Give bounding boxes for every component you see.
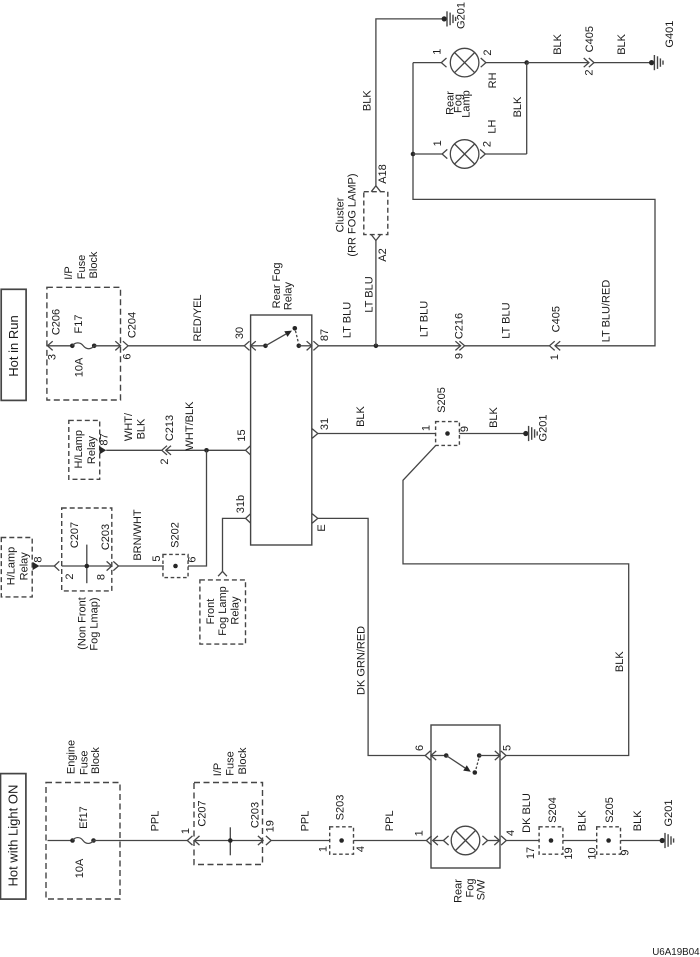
Front Fog Lamp Relay box [200,580,246,644]
label PPL b [300,811,312,832]
switch pin 5 chevrons [495,751,506,760]
ground G201 bottom [660,833,674,848]
svg-text:C207: C207 [69,522,81,548]
svg-text:A18: A18 [377,164,389,184]
svg-text:C405: C405 [551,306,563,332]
svg-text:5: 5 [151,555,163,561]
diagram code U6A19B04 [652,947,700,957]
wire BLK to C405-2 [527,62,589,64]
label 2 c207 [64,573,76,579]
svg-text:1: 1 [180,828,192,834]
wire fuse to C204 [94,345,120,347]
relay pin 31b chevron [246,514,251,523]
label BLK top [362,90,374,111]
label BRN/WHT [132,509,144,561]
label 17 [525,847,537,859]
wire BLK to G401 [594,62,652,64]
fuse Ef17 10A [70,838,96,844]
C203 exit chevron bottom [266,836,271,845]
wire BLK junction down to LH [526,63,528,154]
svg-text:C207: C207 [197,800,209,826]
label C405 top [584,26,596,52]
wire LT BLU C216 to C405 [465,345,550,347]
svg-text:Block: Block [88,251,100,278]
svg-text:LT BLU: LT BLU [501,302,513,338]
label WHT/ BLK [123,412,148,441]
label H/Lamp Relay 2 [5,547,30,586]
label 5 sw [501,745,513,751]
wire DK GRN/RED [318,518,425,755]
wire RH pin2 to junction [486,62,527,64]
wire LH pin1 to junction [413,153,442,155]
triangle link hlamp top [100,446,107,454]
label LT BLU b [364,276,376,312]
label 31b [235,495,247,513]
label C207 nff [69,522,81,548]
connector C213 [162,446,171,455]
svg-text:8: 8 [33,556,45,562]
svg-text:1: 1 [414,830,426,836]
svg-text:2: 2 [482,141,494,147]
svg-text:F17: F17 [73,315,85,334]
svg-text:H/Lamp: H/Lamp [73,430,85,469]
label G201 top [456,2,468,29]
I/P fuse block box bottom [194,783,263,865]
label BLK s205 [488,406,500,427]
node LH junction [411,152,416,157]
switch pin 4 chevrons [494,836,506,845]
Hot in Run header box [1,289,26,400]
svg-text:Fog Lamp: Fog Lamp [217,586,229,636]
splice S203 [330,827,354,854]
label 31 [319,418,331,430]
wire contact to pin5 [479,755,500,757]
svg-text:Fuse: Fuse [224,751,236,775]
wire BRN/WHT [119,565,164,567]
node junction row B [204,448,209,453]
ground G201 row C [523,426,537,441]
svg-text:Front: Front [205,599,217,625]
label 4 sw [505,830,517,836]
label BLK rh1 [552,33,564,54]
H/Lamp Relay box 2 [1,538,32,597]
wire pin6 to contact [431,755,446,757]
svg-text:Hot in Run: Hot in Run [6,315,21,376]
label S205 c [436,387,448,413]
svg-text:C216: C216 [454,313,466,339]
svg-text:LT BLU: LT BLU [364,276,376,312]
label Ef17 [78,806,90,829]
svg-text:2: 2 [64,573,76,579]
wire start to fuse Ef17 [48,840,73,842]
connector C216 [455,341,464,350]
wire PPL to S203 [271,840,330,842]
svg-text:Fuse: Fuse [79,750,91,774]
label 9 [454,353,466,359]
splice S204 [539,827,563,854]
svg-text:1: 1 [432,140,444,146]
label 4 s203 [355,846,367,852]
label LT BLU/RED [600,280,612,343]
svg-text:4: 4 [355,846,367,852]
label S202 [170,522,182,548]
connector C405 [550,341,561,350]
svg-text:Relay: Relay [86,435,98,464]
wire BLK S204 to S205 [563,840,597,842]
label S205 b [604,797,616,823]
relay switch NO contact dot [293,326,298,331]
label BLK s204 [577,810,589,831]
wire 31b [223,518,246,571]
svg-text:I/P: I/P [63,266,75,279]
LH lamp pin1 chevron [442,149,447,158]
switch lamp lead left [443,836,448,845]
svg-text:G201: G201 [663,800,675,827]
wire C206 to fuse [48,345,73,347]
label (Non Front Fog Lmap) [77,597,101,650]
relay pin 15 chevron [246,446,251,455]
LH lamp pin2 chevron [480,149,485,158]
label H/Lamp Relay top [73,430,98,469]
wire S202 up to junction [188,450,207,566]
rear fog lamp RH [450,48,479,77]
svg-text:9: 9 [620,849,632,855]
svg-text:2: 2 [482,50,494,56]
splice S202 [163,554,188,577]
label 15 [236,429,248,441]
svg-text:H/Lamp: H/Lamp [5,547,17,586]
ground G201 top [442,11,456,26]
switch common contact [444,753,449,758]
I/P fuse block box (top) [47,287,121,400]
label S203 [335,795,347,821]
label 1 s203 [318,846,330,852]
wire WHT/BLK to pin15 [166,449,246,451]
splice S205 row C [436,422,460,446]
label DK BLU [521,793,533,833]
fuse F17 10A [70,343,96,349]
svg-text:G201: G201 [538,415,550,442]
svg-text:87: 87 [319,329,331,341]
svg-text:S203: S203 [335,795,347,821]
label C213 [164,415,176,441]
label A18 [377,164,389,184]
relay pin 30 chevrons [244,341,256,350]
svg-text:17: 17 [525,847,537,859]
relay pin87 contact dot [297,344,302,349]
cluster box [364,192,388,235]
svg-text:E: E [316,524,328,531]
wire lamp to pin4 [488,840,500,842]
label 87 hlamp [99,433,111,445]
svg-text:U6A19B04: U6A19B04 [652,947,700,957]
svg-text:Ef17: Ef17 [78,806,90,829]
label 1 LH [432,140,444,146]
label 1 RH [431,49,443,55]
switch pin 1 chevrons [426,836,438,845]
svg-text:6: 6 [122,353,134,359]
svg-text:G201: G201 [456,2,468,29]
svg-text:BLK: BLK [362,90,374,111]
label LH [487,120,499,134]
C203 exit arrow [107,561,112,570]
label DK GRN/RED [356,626,368,695]
svg-text:C204: C204 [127,312,139,338]
svg-text:BLK: BLK [512,96,524,117]
svg-text:BRN/WHT: BRN/WHT [132,509,144,561]
svg-text:(Non Front: (Non Front [77,597,89,650]
svg-text:Relay: Relay [283,282,295,311]
svg-text:4: 4 [505,830,517,836]
label 19 s204 [563,847,575,859]
svg-text:LT BLU/RED: LT BLU/RED [600,280,612,343]
label Engine Fuse Block [66,740,102,775]
relay switch arm [266,331,293,346]
label 2 C213 [159,458,171,464]
svg-text:87: 87 [99,433,111,445]
svg-text:S204: S204 [547,797,559,823]
label F17 [73,315,85,334]
svg-text:RH: RH [487,72,499,88]
label BLK s205b [632,810,644,831]
label C203 nff [100,524,112,550]
label LT BLU d [501,302,513,338]
label G401 [664,21,676,48]
label BLK 31 [355,405,367,426]
svg-text:S202: S202 [170,522,182,548]
label 87 [319,329,331,341]
label 1 [549,354,561,360]
wire to C207 entry [39,565,54,567]
wire to RH lamp pin1 [413,62,441,64]
C203 exit arrow bottom [258,836,263,845]
triangle link hlamp2 [33,562,40,570]
svg-text:Cluster: Cluster [335,197,347,232]
fusible element nff [85,545,90,584]
wire BLK S205 to pin5 [403,445,629,755]
wire Ef17 to C207 [94,840,188,842]
svg-text:S/W: S/W [476,879,488,900]
svg-text:8: 8 [96,574,108,580]
svg-text:PPL: PPL [150,811,162,832]
label 1 sw [414,830,426,836]
svg-text:9: 9 [459,426,471,432]
label LT BLU a [342,302,354,338]
wire pin30 to contact [251,345,266,347]
relay pin 87 chevrons [307,341,319,350]
svg-text:PPL: PPL [384,810,396,831]
H/Lamp Relay box top [69,420,100,479]
label 6 [122,353,134,359]
label E [316,524,328,531]
wire contact to pin 87 [299,345,312,347]
wire LT BLU/RED [413,63,655,346]
svg-text:G401: G401 [664,21,676,48]
label Rear Fog Lamp [445,90,473,118]
svg-text:BLK: BLK [355,405,367,426]
switch lamp lead right [482,836,487,845]
fusible element IP bottom [228,827,233,855]
svg-text:15: 15 [236,429,248,441]
svg-text:3: 3 [47,354,59,360]
svg-text:1: 1 [431,49,443,55]
node RH junction [524,60,529,65]
switch pin5 contact dot [477,753,482,758]
node junction row A [374,344,379,349]
label 10A engine [74,858,86,878]
svg-text:BLK: BLK [577,810,589,831]
relay pin 31 chevron [312,429,318,438]
svg-text:C213: C213 [164,415,176,441]
label BLK right [614,651,626,672]
svg-text:6: 6 [187,556,199,562]
label 10 [587,847,599,859]
label 9 s205 [459,426,471,432]
svg-text:Hot with Light ON: Hot with Light ON [6,785,21,887]
svg-text:LH: LH [487,120,499,134]
svg-text:Rear: Rear [453,879,465,903]
wire LT BLU up to A2 [375,241,377,346]
svg-text:BLK: BLK [136,418,148,439]
switch indicator lamp [451,826,480,855]
svg-text:BLK: BLK [488,406,500,427]
label G201 bottom [663,800,675,827]
wire inside IP bottom [194,840,263,842]
svg-text:Engine: Engine [66,740,78,774]
relay switch dashed link [296,331,299,343]
switch dashed link [476,759,479,770]
svg-text:BLK: BLK [632,810,644,831]
svg-text:C203: C203 [100,524,112,550]
label 6 s202 [187,556,199,562]
label Front Fog Lamp Relay [205,586,242,636]
svg-text:31b: 31b [235,495,247,513]
svg-text:2: 2 [159,458,171,464]
label LT BLU c [419,301,431,337]
connector C206 pin 3 chevron [48,341,53,350]
svg-text:5: 5 [501,745,513,751]
wire LH pin2 [485,153,526,155]
svg-text:C203: C203 [250,802,262,828]
relay pin E chevron [312,514,318,523]
label WHT/BLK b [184,401,196,451]
svg-text:S205: S205 [436,387,448,413]
cluster A2 chevron [371,235,380,241]
rear fog relay box U1 [251,315,312,545]
svg-text:LT BLU: LT BLU [419,301,431,337]
label BLK rh2 [616,33,628,54]
svg-text:9: 9 [454,353,466,359]
wire pin1 to lamp [433,840,444,842]
label G201 row C [538,415,550,442]
RH lamp pin2 chevron [481,58,486,67]
svg-text:6: 6 [414,745,426,751]
label 1 s205 [421,425,433,431]
svg-text:1: 1 [318,846,330,852]
svg-text:10A: 10A [74,357,86,377]
wire DK BLU pin4 to S204 [506,840,539,842]
svg-text:C206: C206 [51,309,63,335]
wire BLK S205 to G201 bottom [621,840,663,842]
svg-text:Lamp: Lamp [461,90,473,118]
connector box C207 C203 [62,508,112,591]
svg-text:PPL: PPL [300,811,312,832]
label PPL a [150,811,162,832]
svg-text:Relay: Relay [18,552,30,581]
svg-text:Relay: Relay [229,596,241,625]
relay switch common contact [263,344,268,349]
svg-text:31: 31 [319,418,331,430]
svg-text:DK BLU: DK BLU [521,793,533,833]
label 30 [234,327,246,339]
label C405 [551,306,563,332]
C203 exit chevron [113,561,118,570]
svg-text:2: 2 [584,70,596,76]
engine fuse block box [46,783,120,900]
svg-text:I/P: I/P [212,763,224,776]
label RED/YEL [192,294,204,341]
label 2 LH [482,141,494,147]
wire WHT/BLK to C213 [106,449,162,451]
label 8 nff [96,574,108,580]
wire inside c207 box [62,565,112,567]
connector C204 chevron [123,341,128,350]
label RH [487,72,499,88]
svg-text:Block: Block [237,747,249,774]
svg-text:30: 30 [234,327,246,339]
svg-text:S205: S205 [604,797,616,823]
rear fog switch box [431,725,500,868]
front fog entry chevron [218,571,227,576]
label C204 [127,312,139,338]
Hot with Light ON header box [1,774,26,900]
label 6 sw [414,745,426,751]
svg-text:DK GRN/RED: DK GRN/RED [356,626,368,695]
label 8 hlamp2 [33,556,45,562]
label S204 [547,797,559,823]
connector C207 bottom [187,836,199,845]
svg-text:Rear Fog: Rear Fog [271,262,283,308]
switch arm tip dot [473,770,478,775]
svg-text:1: 1 [421,425,433,431]
splice S205 bottom [597,827,621,854]
connector C204 arrow [115,341,120,350]
label I/P Fuse Block bottom [212,747,249,776]
wire PPL S203 to switch [354,840,427,842]
svg-text:1: 1 [549,354,561,360]
svg-text:WHT/BLK: WHT/BLK [184,401,196,451]
svg-text:BLK: BLK [614,651,626,672]
RH lamp pin1 chevron [441,58,446,67]
wire BLK S205 to G201 [459,433,525,435]
svg-text:Block: Block [90,747,102,774]
connector C405 pin2 [584,58,594,67]
svg-text:19: 19 [265,820,277,832]
label 3 [47,354,59,360]
label C206 [51,309,63,335]
I/P Fuse Block label (top) [63,251,100,280]
wire LT BLU pin87 to C216 [319,345,461,347]
label 9 s205b [620,849,632,855]
label C216 [454,313,466,339]
label 2 RH [482,50,494,56]
svg-text:WHT/: WHT/ [123,412,135,441]
label Rear Fog Relay [271,262,295,310]
label C207 b [197,800,209,826]
label Rear Fog S/W [453,879,488,903]
label A2 [377,248,389,261]
label C203 b [250,802,262,828]
